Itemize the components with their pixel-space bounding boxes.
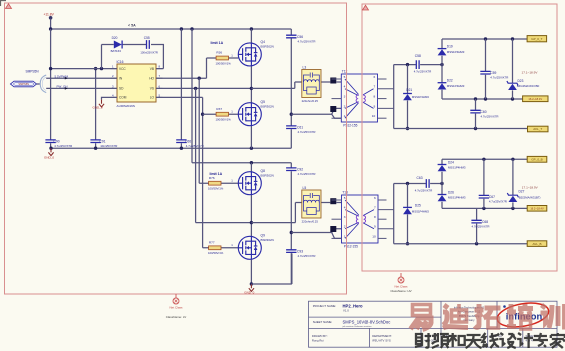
svg-text:VB: VB [150, 67, 154, 71]
svg-text:Net Class: Net Class [394, 284, 408, 288]
svg-text:D20: D20 [112, 36, 118, 40]
svg-text:3: 3 [344, 95, 346, 99]
svg-text:4.7u/25V/X7R: 4.7u/25V/X7R [298, 172, 316, 176]
svg-text:4.7u/25V/X7R: 4.7u/25V/X7R [298, 39, 316, 43]
svg-text:17.1~18.9V: 17.1~18.9V [522, 186, 539, 190]
svg-text:SMPS5N: SMPS5N [26, 70, 40, 74]
svg-text:D22: D22 [447, 79, 453, 83]
svg-text:C58: C58 [415, 54, 421, 58]
svg-text:T13: T13 [342, 191, 348, 195]
svg-text:C68: C68 [482, 220, 488, 224]
svg-text:4.7u/25V/X7R: 4.7u/25V/X7R [415, 189, 432, 193]
svg-text:4.7u/25V/X7R: 4.7u/25V/X7R [414, 70, 431, 74]
svg-text:10: 10 [372, 234, 376, 238]
svg-text:100/50V/1%: 100/50V/1% [208, 251, 224, 255]
svg-text:C91: C91 [100, 140, 106, 144]
svg-text:GND_0: GND_0 [44, 156, 54, 160]
svg-text:+11.8V: +11.8V [44, 13, 55, 17]
svg-text:limit 1A: limit 1A [211, 41, 224, 45]
svg-text:BSR302N: BSR302N [261, 238, 274, 242]
svg-text:17.1~18.9V: 17.1~18.9V [522, 70, 539, 74]
svg-text:C61: C61 [297, 126, 303, 130]
svg-text:Q9: Q9 [261, 234, 266, 238]
svg-text:9: 9 [374, 225, 376, 229]
svg-text:100/50V/1%: 100/50V/1% [216, 61, 232, 65]
svg-text:DRAWN BY:: DRAWN BY: [312, 334, 328, 338]
svg-text:7: 7 [373, 85, 375, 89]
svg-text:PROJECT NAME:: PROJECT NAME: [313, 304, 337, 308]
svg-text:D19: D19 [447, 44, 453, 48]
svg-text:4.7u/25V/X7R: 4.7u/25V/X7R [298, 254, 316, 258]
svg-text:VCC: VCC [119, 67, 126, 71]
svg-text:100n/25V/X7R: 100n/25V/X7R [140, 51, 158, 55]
svg-text:3: 3 [344, 215, 346, 219]
svg-text:C90: C90 [54, 140, 60, 144]
svg-text:COM: COM [119, 96, 127, 100]
svg-text:BZ(SMA/W31BT): BZ(SMA/W31BT) [519, 195, 541, 199]
svg-text:DEPARTMENT:: DEPARTMENT: [372, 334, 392, 338]
svg-text:SHEET NAME:: SHEET NAME: [313, 320, 333, 324]
svg-text:Rong Rui: Rong Rui [312, 338, 324, 342]
svg-text:D21: D21 [406, 88, 412, 92]
svg-text:5: 5 [344, 75, 346, 79]
svg-text:Q5: Q5 [261, 100, 266, 104]
svg-text:SMPS5N: SMPS5N [18, 82, 29, 86]
svg-text:SMPS_16V@-8V.SchDoc: SMPS_16V@-8V.SchDoc [343, 320, 391, 325]
svg-text:4.7u/25V/X7R: 4.7u/25V/X7R [298, 130, 316, 134]
svg-text:1: 1 [344, 234, 346, 238]
svg-text:BSR302N: BSR302N [261, 45, 274, 49]
svg-text:MSS1P4HM3: MSS1P4HM3 [447, 84, 465, 88]
svg-text:10: 10 [372, 114, 376, 118]
svg-text:7: 7 [374, 206, 376, 210]
svg-text:IFEU ATV SYS: IFEU ATV SYS [372, 338, 391, 342]
svg-text:6: 6 [374, 196, 376, 200]
svg-text:L5: L5 [303, 186, 307, 190]
svg-text:MSS1P4HM3: MSS1P4HM3 [412, 95, 429, 99]
svg-text:ClassName: LV: ClassName: LV [166, 315, 187, 319]
svg-text:1: 1 [344, 114, 346, 118]
svg-text:C92: C92 [297, 168, 303, 172]
svg-text:R36: R36 [216, 51, 222, 55]
svg-text:BSR302N: BSR302N [261, 173, 274, 177]
svg-text:MSS1P4HM3: MSS1P4HM3 [412, 209, 429, 213]
svg-text:AVL_B: AVL_B [532, 242, 541, 246]
svg-text:AVL_T: AVL_T [533, 127, 542, 131]
svg-text:C59: C59 [490, 71, 496, 75]
svg-text:4.7u/25V/X7R: 4.7u/25V/X7R [186, 144, 204, 148]
svg-text:100/50V/1%: 100/50V/1% [208, 187, 224, 191]
svg-text:16.2~18.4V: 16.2~18.4V [528, 97, 542, 101]
svg-text:job revision Unknown revision: job revision Unknown revision [342, 325, 373, 328]
svg-text:C55: C55 [144, 36, 150, 40]
svg-text:V1.0: V1.0 [343, 309, 349, 313]
svg-text:MSS1P4HM3: MSS1P4HM3 [448, 196, 466, 200]
svg-text:5: 5 [344, 196, 346, 200]
svg-text:L3: L3 [303, 65, 307, 69]
svg-text:D24: D24 [448, 160, 454, 164]
svg-text:2: 2 [344, 104, 346, 108]
svg-text:R76: R76 [209, 176, 215, 180]
svg-text:HO: HO [149, 77, 154, 81]
svg-text:PS12-155: PS12-155 [344, 244, 358, 248]
svg-text:16.2~18.4V: 16.2~18.4V [530, 207, 544, 211]
svg-text:C93: C93 [297, 249, 303, 253]
svg-text:C66: C66 [185, 140, 191, 144]
svg-text:C67: C67 [489, 195, 495, 199]
svg-text:C60: C60 [481, 110, 487, 114]
svg-text:8: 8 [373, 95, 375, 99]
svg-text:IC16: IC16 [117, 60, 124, 64]
svg-text:4.7u/25V/X7R: 4.7u/25V/X7R [489, 200, 507, 204]
svg-text:220ohm/0.25: 220ohm/0.25 [302, 99, 319, 103]
svg-text:LO: LO [150, 96, 155, 100]
svg-text:4: 4 [344, 85, 346, 89]
svg-text:10n/25V/X7R: 10n/25V/X7R [100, 144, 117, 148]
svg-text:6: 6 [373, 75, 375, 79]
svg-text:4.7u/25V/X7R: 4.7u/25V/X7R [490, 76, 508, 80]
svg-text:C63: C63 [417, 176, 423, 180]
svg-text:D26: D26 [448, 190, 454, 194]
svg-text:220ohm/0.25: 220ohm/0.25 [302, 219, 319, 223]
svg-text:R37: R37 [216, 107, 222, 111]
svg-text:4.7u/25V/X7R: 4.7u/25V/X7R [481, 115, 499, 119]
svg-text:4.7u/25V/X7R: 4.7u/25V/X7R [54, 144, 72, 148]
svg-text:D23: D23 [518, 79, 524, 83]
svg-text:D25: D25 [415, 203, 421, 207]
svg-text:Q4: Q4 [261, 40, 266, 44]
svg-text:100/50V/1%: 100/50V/1% [216, 118, 232, 122]
svg-text:GP_0_B: GP_0_B [531, 158, 542, 162]
svg-text:D27: D27 [519, 190, 525, 194]
svg-text:BZG3MA/WJ3 BD: BZG3MA/WJ3 BD [517, 84, 540, 88]
svg-text:MSS1P4HM3: MSS1P4HM3 [447, 50, 465, 54]
svg-text:4.7u/25V/X7R: 4.7u/25V/X7R [472, 225, 490, 229]
svg-text:Q8: Q8 [261, 169, 266, 173]
svg-text:VS: VS [150, 87, 154, 91]
svg-text:GP_0_T: GP_0_T [531, 37, 542, 41]
svg-text:BAT163: BAT163 [111, 49, 122, 53]
svg-text:R77: R77 [209, 240, 215, 244]
svg-text:2: 2 [344, 225, 346, 229]
svg-text:9: 9 [373, 104, 375, 108]
svg-text:< 5A: < 5A [128, 24, 136, 28]
svg-text:AUIRS2016S: AUIRS2016S [117, 104, 135, 108]
svg-text:limit 1A: limit 1A [210, 172, 223, 176]
svg-text:ClassName: HV: ClassName: HV [390, 289, 411, 293]
svg-text:PS12-155: PS12-155 [343, 123, 357, 127]
svg-text:GND_0: GND_0 [93, 105, 103, 109]
svg-text:SD: SD [119, 87, 124, 91]
svg-text:C56: C56 [297, 35, 303, 39]
svg-text:4: 4 [344, 206, 346, 210]
svg-text:8: 8 [374, 215, 376, 219]
svg-text:BSR302N: BSR302N [261, 104, 274, 108]
svg-text:MSS1P4HM3: MSS1P4HM3 [448, 166, 466, 170]
svg-text:Net Class: Net Class [169, 305, 183, 309]
